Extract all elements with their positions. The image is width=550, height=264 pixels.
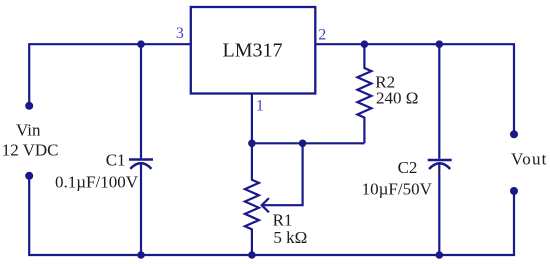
svg-text:LM317: LM317	[223, 40, 283, 62]
svg-text:3: 3	[176, 25, 184, 42]
svg-text:C2: C2	[398, 158, 418, 177]
svg-text:2: 2	[318, 27, 326, 44]
svg-text:12 VDC: 12 VDC	[2, 140, 59, 159]
svg-text:240 Ω: 240 Ω	[376, 89, 418, 108]
svg-text:R1: R1	[273, 211, 293, 230]
svg-text:C1: C1	[106, 150, 126, 169]
svg-text:0.1µF/100V: 0.1µF/100V	[55, 173, 139, 192]
svg-text:10µF/50V: 10µF/50V	[362, 180, 433, 199]
svg-text:1: 1	[256, 98, 264, 115]
svg-text:Vin: Vin	[16, 121, 41, 140]
svg-text:5 kΩ: 5 kΩ	[273, 228, 307, 247]
svg-text:Vout: Vout	[511, 150, 548, 169]
